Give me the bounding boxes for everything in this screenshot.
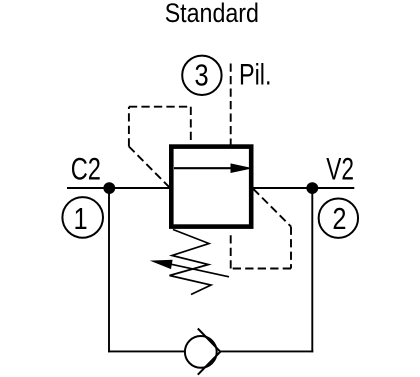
right branch wire (down from node 2) [311,188,313,352]
left pipe C2 [67,187,171,189]
right pilot dashed line (from box right to spring chamber) [253,189,291,227]
svg-text:V2: V2 [326,151,354,187]
left pilot dashed line (from port C2 junction to box top) [129,147,170,188]
bottom pipe right segment [220,350,313,352]
svg-text:2: 2 [332,201,346,236]
check valve seat [198,329,221,375]
port circle 1 [62,197,103,238]
right pipe V2 [251,187,354,189]
check valve ball [185,336,217,368]
pilot dashed line (top, node 3 to valve box) [230,64,232,147]
port circle 3 [182,56,221,95]
bottom pipe left segment [108,350,185,352]
node 2 junction dot [306,182,318,194]
spring adjustment arrow [168,264,229,277]
svg-text:Standard: Standard [165,0,259,29]
spring [170,230,212,295]
svg-text:1: 1 [74,202,88,237]
flow arrow inside valve box [174,167,233,169]
svg-text:Pil.: Pil. [239,58,271,91]
valve box U1 [171,147,251,227]
svg-text:C2: C2 [71,151,101,186]
left branch wire (down from node 1) [108,188,110,352]
node 1 junction dot [103,182,115,194]
port circle 2 [319,198,358,237]
svg-text:3: 3 [194,58,208,93]
